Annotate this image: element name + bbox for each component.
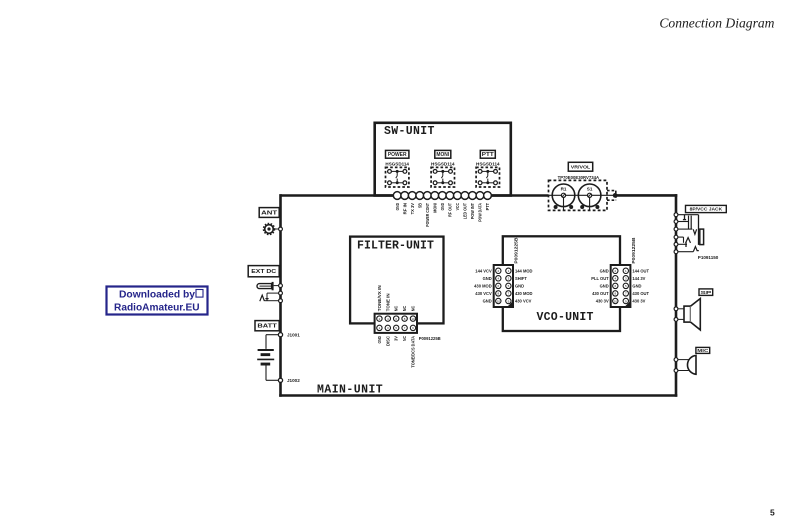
- switch S2 (MONI) part HSGSD114: [431, 162, 455, 187]
- svg-text:VCC: VCC: [455, 203, 460, 210]
- pin label RF IN: [402, 203, 407, 214]
- svg-text:HSGSD114: HSGSD114: [431, 162, 455, 167]
- svg-text:430 3V: 430 3V: [596, 299, 609, 304]
- switch label MONI: [435, 150, 451, 158]
- svg-text:430 OUT: 430 OUT: [632, 291, 649, 296]
- connector J2 FILTER-UNIT (2x5): [375, 314, 417, 333]
- speaker SP1: [678, 299, 700, 330]
- connector J3 VCO-UNIT left (2x5): [494, 265, 513, 307]
- pin label 430 MOD: [515, 291, 533, 296]
- pin label 430 OUT: [632, 291, 649, 296]
- svg-text:3V: 3V: [394, 336, 399, 341]
- svg-text:PTT: PTT: [485, 203, 490, 211]
- svg-text:GND: GND: [483, 276, 492, 281]
- MAIN-UNIT title: [317, 383, 383, 396]
- page title Connection Diagram: [659, 16, 774, 31]
- pin label POW INT: [470, 203, 475, 220]
- svg-text:PLL OUT: PLL OUT: [591, 276, 609, 281]
- svg-text:144 OUT: 144 OUT: [632, 268, 649, 273]
- FILTER-UNIT title: [357, 240, 434, 253]
- pin label RF OUT: [447, 203, 452, 217]
- svg-text:NC: NC: [394, 306, 399, 311]
- pin label 430 3V: [596, 299, 609, 304]
- svg-text:5: 5: [770, 508, 775, 518]
- svg-text:NC: NC: [402, 336, 407, 341]
- svg-text:MONI: MONI: [436, 152, 449, 158]
- svg-text:SHIFT: SHIFT: [515, 276, 527, 281]
- svg-text:POWER: POWER: [388, 152, 407, 158]
- svg-text:MONI: MONI: [432, 203, 437, 213]
- svg-text:NC: NC: [411, 306, 416, 311]
- svg-text:GND: GND: [600, 268, 609, 273]
- svg-text:GND: GND: [483, 299, 492, 304]
- svg-text:430 OUT: 430 OUT: [592, 291, 609, 296]
- svg-text:R1: R1: [561, 186, 567, 191]
- svg-text:SW-UNIT: SW-UNIT: [384, 125, 435, 138]
- switch S1 (PTT) part HSGSD114: [476, 162, 500, 187]
- switch label POWER: [386, 150, 409, 158]
- wire top edge left segment: [281, 194, 549, 197]
- VR assembly dashed outline: [549, 180, 608, 210]
- VCO-UNIT board outline: [503, 236, 620, 331]
- pin label 430 VCV: [475, 291, 492, 296]
- label MIC: [696, 347, 710, 353]
- microphone MIC1: [678, 355, 696, 374]
- svg-text:NC: NC: [402, 306, 407, 311]
- svg-text:430 MOD: 430 MOD: [515, 291, 533, 296]
- svg-text:430 VCV: 430 VCV: [515, 299, 532, 304]
- pin label TONE/DCS DATA: [411, 336, 416, 368]
- FILTER-UNIT board outline: [350, 237, 443, 324]
- pin label 430 MOD: [474, 284, 492, 289]
- svg-text:430 VCV: 430 VCV: [475, 291, 492, 296]
- svg-text:10: 10: [614, 299, 618, 303]
- pin label POW DATA: [478, 203, 483, 222]
- antenna jack: [263, 223, 278, 234]
- pin ANT on MAIN-UNIT edge: [279, 227, 283, 231]
- svg-text:430 3V: 430 3V: [632, 299, 645, 304]
- svg-text:P0091225B: P0091225B: [419, 336, 441, 341]
- pin label POWER CONT: [425, 203, 430, 227]
- label VR/VOL: [568, 162, 592, 171]
- svg-text:10: 10: [411, 317, 415, 321]
- pin label GND: [600, 284, 609, 289]
- svg-text:VR/VOL: VR/VOL: [571, 164, 591, 169]
- pin label GND: [483, 276, 492, 281]
- svg-text:S1: S1: [587, 186, 593, 191]
- pin label NC: [402, 306, 407, 311]
- pin label 5B: [417, 203, 422, 208]
- part number P0091225B: [631, 238, 636, 264]
- switch label PTT: [480, 150, 495, 158]
- pin label DISC: [385, 336, 390, 346]
- svg-text:MIC: MIC: [697, 348, 709, 353]
- pins SP on MAIN-UNIT edge: [674, 307, 678, 321]
- DC jack internal switch: [260, 293, 279, 301]
- svg-text:EXT DC: EXT DC: [251, 269, 276, 275]
- svg-text:P0091225B: P0091225B: [631, 238, 636, 264]
- pin label PLL OUT: [591, 276, 609, 281]
- svg-text:GND: GND: [395, 203, 400, 210]
- pin label NC: [402, 336, 407, 341]
- svg-text:J1001: J1001: [287, 333, 300, 338]
- pin label GND: [395, 203, 400, 210]
- pin label PTT: [485, 203, 490, 211]
- pins 8P/VCC jack on MAIN-UNIT edge: [674, 213, 678, 254]
- pins MIC on MAIN-UNIT edge: [674, 358, 678, 373]
- switch S3 (POWER) part HSGSD114: [385, 162, 409, 187]
- pin label GND: [440, 203, 445, 210]
- label EXT DC: [248, 266, 279, 277]
- pin label 3V: [394, 336, 399, 341]
- pin label 430 OUT: [592, 291, 609, 296]
- svg-text:RadioAmateur.EU: RadioAmateur.EU: [114, 301, 200, 313]
- watermark badge Downloaded by RadioAmateur.EU: [107, 287, 208, 315]
- svg-text:RF OUT: RF OUT: [447, 203, 452, 217]
- label 8P/VCC JACK: [686, 205, 727, 212]
- svg-text:J1002: J1002: [287, 378, 300, 383]
- svg-text:Downloaded by: Downloaded by: [119, 290, 195, 301]
- part number P0091225B: [419, 336, 441, 341]
- svg-text:POW INT: POW INT: [470, 203, 475, 220]
- pin J1002: [278, 378, 300, 383]
- potentiometer assembly TP70E00E30RV734A: [558, 175, 600, 180]
- pin label 144 MOD: [515, 268, 533, 273]
- pin label LED OUT: [463, 203, 468, 220]
- pin label 430 3V: [632, 299, 645, 304]
- svg-text:10: 10: [497, 299, 501, 303]
- pin label 144 3V: [632, 276, 645, 281]
- svg-text:Connection Diagram: Connection Diagram: [659, 16, 774, 31]
- svg-text:TP70E00E30RV734A: TP70E00E30RV734A: [558, 175, 600, 180]
- pin label NC: [411, 306, 416, 311]
- svg-text:MAIN-UNIT: MAIN-UNIT: [317, 383, 383, 396]
- svg-text:GND: GND: [377, 336, 382, 344]
- svg-text:VCO-UNIT: VCO-UNIT: [537, 311, 594, 324]
- svg-text:ANT: ANT: [261, 210, 278, 216]
- svg-text:RF IN: RF IN: [402, 203, 407, 214]
- svg-text:TONE/VX IN: TONE/VX IN: [377, 285, 382, 311]
- connector J1 pin row between SW-UNIT and MAIN-UNIT: [393, 192, 491, 200]
- wire top edge right segment: [615, 194, 677, 197]
- wire right edge: [675, 194, 678, 397]
- pins EXT DC on MAIN-UNIT edge: [279, 284, 283, 303]
- potentiometer S1: [578, 184, 601, 210]
- VCO-UNIT title: [537, 311, 594, 324]
- svg-text:HSGSD114: HSGSD114: [476, 162, 500, 167]
- part number P0091225B: [514, 238, 519, 264]
- svg-text:DISC: DISC: [385, 336, 390, 346]
- wire bottom edge: [279, 394, 677, 397]
- SW-UNIT title: [384, 125, 435, 138]
- potentiometer R1: [552, 184, 575, 210]
- pin label 144 VCV: [475, 268, 492, 273]
- label BATT: [255, 321, 279, 331]
- svg-text:LED OUT: LED OUT: [463, 203, 468, 220]
- svg-text:TONE IN: TONE IN: [385, 293, 390, 311]
- wire left edge: [279, 194, 282, 397]
- node VR output junction: [607, 191, 618, 201]
- svg-text:PTT: PTT: [482, 152, 494, 158]
- pin label NC: [394, 306, 399, 311]
- SW-UNIT board outline: [375, 123, 511, 196]
- jack J5 8P/VCC internals P1091150: [678, 215, 703, 252]
- svg-text:P0091225B: P0091225B: [514, 238, 519, 264]
- page number 5: [770, 508, 775, 518]
- svg-text:144 3V: 144 3V: [632, 276, 645, 281]
- svg-text:GND: GND: [440, 203, 445, 210]
- svg-text:430 MOD: 430 MOD: [474, 284, 492, 289]
- connector J4 VCO-UNIT right (2x5): [611, 265, 631, 307]
- part number P1091150: [698, 255, 719, 260]
- pin label GND: [632, 284, 641, 289]
- pin label 430 VCV: [515, 299, 532, 304]
- svg-text:5B: 5B: [417, 203, 422, 208]
- wire wiper line: [549, 194, 616, 196]
- DC plug symbol: [257, 282, 279, 290]
- pin label GND: [377, 336, 382, 344]
- svg-text:144 MOD: 144 MOD: [515, 268, 533, 273]
- svg-text:POWER CONT: POWER CONT: [425, 203, 430, 227]
- pin label MONI: [432, 203, 437, 213]
- svg-text:TONE/DCS DATA: TONE/DCS DATA: [411, 336, 416, 368]
- pin label TONE/VX IN: [377, 285, 382, 311]
- svg-text:POW DATA: POW DATA: [478, 203, 483, 222]
- pin label TONE IN: [385, 293, 390, 311]
- battery BT1: [257, 335, 278, 381]
- svg-text:GND: GND: [632, 284, 641, 289]
- pin label SHIFT: [515, 276, 527, 281]
- label ANT: [259, 208, 279, 218]
- svg-text:SP: SP: [700, 290, 711, 295]
- svg-text:HSGSD114: HSGSD114: [385, 162, 409, 167]
- svg-text:8P/VCC JACK: 8P/VCC JACK: [690, 207, 724, 212]
- svg-text:P1091150: P1091150: [698, 255, 719, 260]
- pin J1001: [278, 333, 300, 338]
- label SP: [699, 289, 713, 296]
- svg-text:FILTER-UNIT: FILTER-UNIT: [357, 240, 434, 253]
- svg-text:144 VCV: 144 VCV: [475, 268, 492, 273]
- pot center terminals: [561, 193, 591, 197]
- MAIN-UNIT board outline: [279, 194, 677, 397]
- pin label GND: [515, 284, 524, 289]
- pin label VCC: [455, 203, 460, 210]
- pin label GND: [483, 299, 492, 304]
- svg-text:TX 3V: TX 3V: [410, 203, 415, 215]
- pin label 144 OUT: [632, 268, 649, 273]
- svg-text:GND: GND: [515, 284, 524, 289]
- svg-text:BATT: BATT: [257, 324, 278, 330]
- svg-text:GND: GND: [600, 284, 609, 289]
- pin label TX 3V: [410, 203, 415, 215]
- pin label GND: [600, 268, 609, 273]
